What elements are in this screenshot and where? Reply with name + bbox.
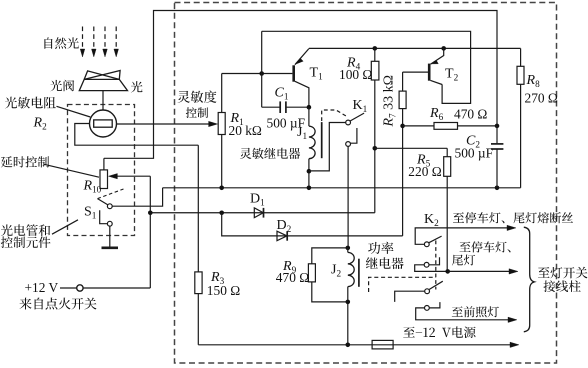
resistor R10 (delay pot): [100, 170, 108, 189]
label 光电管和控制元件: [1, 224, 50, 236]
svg-text:220 Ω: 220 Ω: [408, 164, 441, 179]
wire S1 wiper to common rail: [112, 188, 163, 206]
junction R6 right / C2 top: [495, 124, 500, 129]
resistor R6: [403, 125, 434, 127]
svg-text:500 µF: 500 µF: [455, 145, 494, 160]
label 灵敏继电器 (sensitive relay): [240, 148, 300, 159]
+12V terminal: [60, 287, 77, 289]
T1 emitter with arrow (PNP): [295, 49, 309, 65]
T2 emitter with arrow (PNP): [431, 48, 444, 64]
wire R2 left terminal: [75, 124, 199, 146]
K2 contact 4 wire to headlight arrow: [416, 308, 510, 320]
label 至-12 V电源 (to -12V supply): [403, 326, 475, 338]
svg-text:470 Ω: 470 Ω: [276, 270, 309, 285]
svg-text:R7 33 kΩ: R7 33 kΩ: [382, 75, 398, 128]
wire +12V node to D1 line: [150, 212, 374, 214]
natural light dashed arrow 4: [115, 27, 117, 50]
capacitor C1: [261, 31, 263, 107]
brace for light-switch terminals: [524, 227, 535, 332]
S1 upper contact: [107, 204, 112, 209]
relay coil J2: [347, 248, 349, 253]
wire valve to photoresistor: [102, 91, 104, 111]
power relay dashed outline: [369, 277, 436, 292]
label 光阀: [50, 80, 74, 92]
resistor R5: [444, 157, 451, 177]
K2 contact 3 wire to J2 bottom node: [395, 291, 425, 302]
junction J1 bottom / K1 wire: [307, 169, 312, 174]
T1 base wire: [262, 73, 293, 75]
wire R3 column vertical: [197, 145, 199, 272]
label 延时控制 pointer line: [44, 164, 99, 177]
junction rail / R1 bottom: [219, 186, 224, 191]
photoresistor R2 (光敏电阻): [90, 110, 117, 137]
label 功率继电器 (power relay): [368, 242, 393, 254]
control unit dashed border box: [175, 3, 557, 364]
photocell dashed box (光电管和控制元件): [68, 105, 135, 236]
transistor T2 base bar: [428, 64, 431, 81]
label 光电管和控制元件 pointer line: [52, 220, 78, 234]
light valve (光阀) body: [79, 79, 127, 90]
capacitor C2: [496, 126, 498, 143]
wire emitter supply line: [309, 47, 521, 49]
svg-text:270 Ω: 270 Ω: [525, 90, 558, 105]
junction D1 line / R1-D2 branch: [219, 210, 224, 215]
svg-text:470 Ω: 470 Ω: [454, 107, 487, 122]
label 延时控制 (delay control): [1, 156, 49, 167]
wire S1 to ground: [109, 226, 111, 247]
wire R9 top: [312, 248, 348, 264]
K1 lower contact hook: [350, 128, 357, 143]
wire R1 branch down to D2 line: [222, 213, 403, 236]
label 至停车灯、尾灯熔断丝: [453, 212, 573, 223]
K2 contact 2: [424, 262, 429, 267]
label 光 (light): [131, 81, 143, 92]
K2 contact 4 hook: [429, 302, 440, 308]
S1 lower contact hook: [100, 210, 108, 224]
fuse: [372, 340, 393, 349]
label 至灯开关接线柱 (to light switch terminals): [538, 267, 588, 279]
label 自然光 (natural light): [44, 37, 78, 49]
K2 contact 1 wire to fuse arrow: [415, 228, 509, 244]
junction R5 / tail-light arrow: [445, 269, 450, 274]
diode D1: [254, 208, 263, 218]
junction rail / C2 bottom: [495, 186, 500, 191]
junction J2 top: [346, 246, 351, 251]
wire T1 base node to T2 collector (top line): [262, 31, 471, 103]
junction T2 emitter: [441, 46, 446, 51]
K1 upper contact: [346, 120, 351, 125]
T1 collector: [295, 81, 309, 107]
R10 wiper arrow: [117, 175, 151, 177]
label 光敏电阻: [5, 97, 56, 109]
ground: [102, 247, 119, 250]
J1 core bar: [321, 122, 323, 158]
junction C1 right / T1 collector / J1 top: [307, 105, 312, 110]
relay coil J1: [308, 107, 310, 126]
junction T1 emitter line / R4: [373, 46, 378, 51]
K2 contact 3: [425, 289, 430, 294]
K2 contact 3 blade: [429, 281, 443, 289]
wire R2 right / sensitivity wiper arrow to R1: [117, 123, 210, 125]
resistor R3: [195, 272, 202, 294]
wire R4 node to R5: [375, 147, 447, 149]
wire wiper to +12V node: [149, 176, 151, 288]
K2 linkage dashed: [435, 241, 437, 290]
K2 contact 1 blade: [429, 236, 442, 243]
label 至前照灯 (to headlights): [452, 306, 499, 317]
wire R10 feed: [103, 158, 105, 170]
K2 contact 1: [424, 242, 429, 247]
wire K1 lower contact to J2: [347, 146, 349, 248]
junction bottom rail / J2 node: [346, 343, 351, 348]
svg-text:100 Ω: 100 Ω: [339, 67, 372, 82]
K1 upper contact wire to J1 bottom: [309, 123, 346, 171]
tail light arrow: [448, 270, 511, 272]
natural light dashed arrow 2: [93, 27, 95, 50]
label 来自点火开关 (from ignition switch): [19, 298, 96, 310]
resistor R4: [374, 48, 376, 61]
S1 lower contact: [107, 221, 112, 226]
K2 contact 4: [425, 306, 430, 311]
switch S1 blade: [98, 199, 108, 205]
J2 core bar: [358, 259, 360, 287]
light valve bowtie top: [84, 71, 119, 80]
resistor R1: [221, 74, 223, 113]
junction T1 base / R1 / C1 node: [259, 71, 264, 76]
K2 contact 2 wire to node: [415, 265, 448, 272]
natural light dashed arrow 3: [104, 27, 106, 50]
bottom -12V rail: [198, 344, 512, 346]
svg-text:150 Ω: 150 Ω: [207, 283, 240, 298]
resistor R7: [402, 109, 404, 236]
T2 collector: [431, 80, 443, 84]
K1 linkage dashed: [322, 110, 347, 121]
K2 contact 2 hook: [429, 257, 440, 265]
label 光敏电阻 pointer line: [57, 106, 91, 117]
wire R9 bottom: [312, 282, 348, 302]
resistor R8: [520, 48, 522, 66]
K1 lower contact: [346, 142, 351, 147]
R7 to T2 base: [403, 71, 428, 73]
junction J2 bottom / R9 / K2 riser: [346, 300, 351, 305]
K1 blade: [350, 113, 364, 121]
label 至停车灯、尾灯: [460, 241, 511, 252]
junction rail / J1 bottom: [307, 186, 312, 191]
junction R7 bottom / R6 line: [400, 124, 405, 129]
svg-text:20 kΩ: 20 kΩ: [229, 123, 262, 138]
natural light dashed arrow 1: [82, 27, 84, 50]
junction R4 bottom / R5 line: [373, 146, 378, 151]
common emitter rail: [163, 187, 521, 189]
diode D2: [277, 231, 287, 241]
junction +12V / wiper / D1 line: [148, 210, 153, 215]
svg-text:+12 V: +12 V: [25, 280, 59, 295]
S1 linkage dashed: [98, 189, 124, 199]
label 灵敏度控制 (sensitivity control): [178, 91, 217, 103]
transistor T1 base bar: [292, 65, 295, 81]
resistor R9: [308, 264, 315, 282]
wire top rail from R2 node to C2 column: [104, 11, 497, 159]
